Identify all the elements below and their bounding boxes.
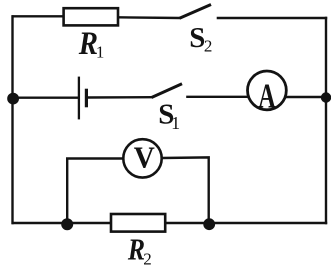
wire S1 to ammeter xyxy=(186,96,248,98)
svg-text:1: 1 xyxy=(96,43,105,62)
wire left vertical xyxy=(11,15,13,224)
wire voltmeter branch right vertical xyxy=(162,157,209,223)
wire R1 to S2 xyxy=(118,16,180,19)
wire bottom left segment xyxy=(12,222,112,224)
svg-text:2: 2 xyxy=(204,37,213,56)
junction dot bottom left xyxy=(61,218,73,230)
wire right vertical xyxy=(325,17,327,224)
switch S1 lever xyxy=(152,84,183,98)
voltmeter U2 circle xyxy=(123,139,161,177)
wire S2 to top right corner xyxy=(217,17,328,19)
junction dot right middle xyxy=(321,92,331,102)
battery long plate xyxy=(78,77,80,120)
label S2 xyxy=(189,22,212,56)
svg-text:V: V xyxy=(134,140,155,175)
battery short plate xyxy=(85,89,88,108)
svg-text:2: 2 xyxy=(143,249,152,266)
label R2 xyxy=(127,233,152,266)
junction dot left middle xyxy=(7,93,19,105)
label R1 xyxy=(78,24,105,61)
label S1 xyxy=(158,98,180,132)
wire bottom right segment xyxy=(165,222,327,224)
resistor R2 xyxy=(111,214,165,232)
wire top left segment xyxy=(12,15,65,17)
junction dot bottom right xyxy=(203,218,215,230)
wire voltmeter branch left vertical xyxy=(67,159,123,224)
svg-text:1: 1 xyxy=(171,113,180,133)
wire middle left segment xyxy=(12,96,78,98)
wire ammeter to right junction xyxy=(286,96,327,98)
resistor R1 xyxy=(64,8,118,25)
svg-text:A: A xyxy=(258,76,276,116)
ammeter U1 circle xyxy=(248,71,287,110)
switch S2 lever xyxy=(180,5,212,19)
wire battery to S1 xyxy=(88,96,152,99)
